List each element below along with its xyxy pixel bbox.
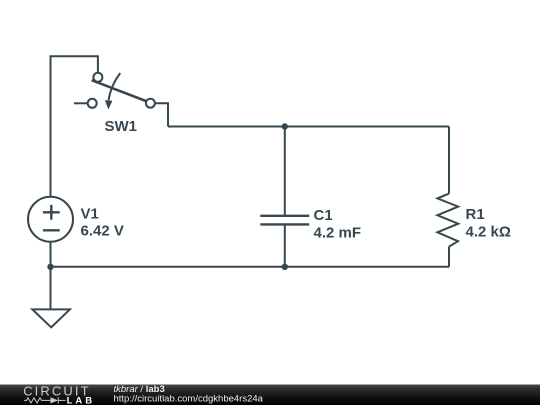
wire SW1 left throw stub bbox=[74, 102, 88, 104]
svg-text:4.2 mF: 4.2 mF bbox=[314, 225, 362, 242]
svg-text:V1: V1 bbox=[81, 205, 99, 222]
capacitor C1 bbox=[260, 216, 309, 225]
wire R1 bottom to bottom rail bbox=[448, 247, 450, 267]
wire left vertical V1 top to top-left corner bbox=[51, 56, 98, 197]
switch SW1 bbox=[88, 73, 155, 110]
wire bottom rail bbox=[51, 266, 450, 268]
wire SW1 right terminal to top rail bbox=[155, 103, 168, 126]
svg-text:LAB: LAB bbox=[67, 395, 96, 405]
node junction C1 top bbox=[282, 123, 288, 129]
node junction V1 bottom bbox=[47, 264, 53, 270]
ground bbox=[32, 309, 70, 327]
svg-text:SW1: SW1 bbox=[105, 118, 138, 135]
svg-text:C1: C1 bbox=[314, 207, 333, 224]
logo resistor-diode symbol bbox=[24, 397, 66, 403]
wire ground stem bbox=[50, 267, 52, 310]
wire C1 top bbox=[284, 127, 286, 216]
svg-text:6.42 V: 6.42 V bbox=[81, 223, 124, 240]
svg-text:R1: R1 bbox=[466, 206, 485, 223]
voltage source V1 bbox=[28, 197, 73, 242]
svg-text:4.2 kΩ: 4.2 kΩ bbox=[466, 224, 511, 241]
wire C1 bottom bbox=[284, 224, 286, 266]
wire V1 bottom to bottom rail bbox=[50, 242, 52, 267]
wire right vertical to R1 bbox=[448, 127, 450, 194]
node junction C1 bottom bbox=[282, 264, 288, 270]
footer bar bbox=[0, 385, 540, 405]
resistor R1 bbox=[437, 194, 458, 247]
svg-text:http://circuitlab.com/cdgkhbe4: http://circuitlab.com/cdgkhbe4rs24a bbox=[114, 393, 264, 404]
wire top rail bbox=[168, 126, 449, 128]
